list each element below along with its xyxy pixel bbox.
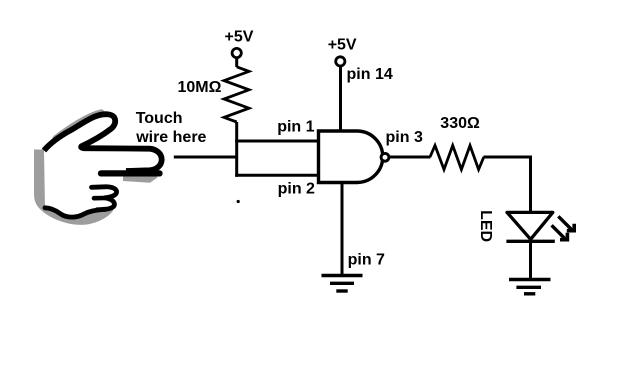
svg-text:pin 1: pin 1 [277,119,314,136]
svg-text:+5V: +5V [328,36,357,53]
svg-text:pin 2: pin 2 [278,180,315,197]
svg-text:Touch: Touch [136,110,183,127]
svg-text:pin 14: pin 14 [347,66,393,83]
svg-text:+5V: +5V [225,28,254,45]
svg-text:wire here: wire here [135,129,206,146]
svg-text:pin 3: pin 3 [386,129,423,146]
svg-text:pin 7: pin 7 [348,251,385,268]
svg-text:LED: LED [477,210,494,242]
svg-text:330Ω: 330Ω [440,115,480,132]
svg-text:10MΩ: 10MΩ [178,79,222,96]
